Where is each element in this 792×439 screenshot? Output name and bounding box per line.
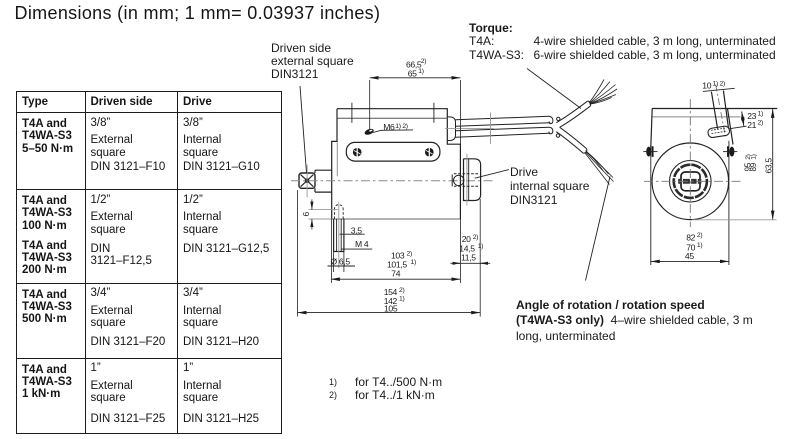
body outline bbox=[332, 109, 461, 219]
table of drive squares bbox=[16, 91, 282, 434]
square centerline vertical bbox=[306, 165, 308, 198]
svg-text:2): 2) bbox=[473, 234, 478, 241]
M6 label leader bbox=[373, 130, 413, 133]
svg-text:Ø 6,5: Ø 6,5 bbox=[331, 256, 351, 266]
front dim 95/63.5 line bbox=[772, 109, 774, 220]
M4 stud hidden thread bbox=[334, 205, 343, 219]
cable wires lower bbox=[585, 151, 614, 185]
cable sheath lower bbox=[556, 127, 587, 153]
dim M4 leader bbox=[341, 248, 372, 250]
dim 6.5 leader bbox=[328, 265, 356, 267]
drive label leader bbox=[475, 170, 509, 179]
driven side label leader bbox=[300, 86, 307, 173]
front ear right bbox=[723, 146, 737, 157]
front ring outer bbox=[670, 161, 712, 203]
stud centerline bbox=[338, 202, 340, 269]
svg-text:M 4: M 4 bbox=[355, 239, 369, 249]
slot screw right bbox=[425, 147, 434, 157]
cable pair lower bbox=[456, 127, 550, 137]
svg-text:1): 1) bbox=[758, 111, 763, 118]
dim 66.5 extensions bbox=[370, 80, 461, 144]
cap joint line bbox=[337, 117, 447, 119]
svg-text:1): 1) bbox=[411, 259, 416, 266]
annotation: footnotes bbox=[329, 376, 337, 401]
svg-text:2): 2) bbox=[758, 120, 763, 127]
svg-text:21: 21 bbox=[747, 120, 756, 130]
cap screw tick right bbox=[433, 103, 435, 123]
cable boss bbox=[447, 117, 455, 141]
front dim 23/21 bbox=[730, 112, 747, 129]
svg-text:11,5: 11,5 bbox=[461, 253, 476, 263]
body recess line bbox=[336, 142, 338, 176]
svg-text:74: 74 bbox=[391, 269, 400, 279]
main centerline bbox=[291, 180, 494, 182]
cable sheath upper bbox=[556, 101, 590, 127]
front right edge bbox=[728, 109, 734, 145]
svg-text:10: 10 bbox=[702, 81, 711, 91]
svg-text:65: 65 bbox=[408, 69, 417, 79]
annotation: driven side label bbox=[271, 42, 354, 82]
svg-text:82: 82 bbox=[686, 233, 695, 243]
M4 stud bbox=[334, 219, 344, 252]
svg-text:89: 89 bbox=[749, 162, 758, 171]
front dim 10 line bbox=[703, 88, 735, 91]
annotation: torque cable label bbox=[469, 22, 776, 63]
front ear left bbox=[643, 146, 657, 157]
front big circle bbox=[652, 143, 729, 220]
front left edge bbox=[651, 109, 653, 151]
annotation: drive internal square label bbox=[510, 165, 589, 208]
front tube gland bbox=[707, 126, 730, 139]
torque label leader bbox=[527, 69, 581, 109]
svg-text:1): 1) bbox=[697, 242, 702, 249]
dim 6.5 extensions bbox=[334, 252, 344, 273]
drive internal square hidden bbox=[454, 174, 479, 187]
svg-text:45: 45 bbox=[685, 251, 694, 261]
front vertical centerline bbox=[689, 99, 691, 227]
dim 105 extension left bbox=[297, 190, 299, 317]
svg-text:2): 2) bbox=[421, 58, 426, 65]
cable wires upper bbox=[589, 80, 617, 105]
front center hatch bbox=[678, 179, 702, 184]
front center square bbox=[681, 172, 700, 191]
dim right extension 460 bbox=[459, 219, 461, 283]
cable pair upper bbox=[456, 116, 550, 126]
svg-text:63,5: 63,5 bbox=[763, 158, 773, 174]
front dim 45 line bbox=[651, 260, 729, 262]
cable axis line bbox=[445, 128, 494, 130]
dim 74 extension left bbox=[330, 219, 332, 283]
front ring dashed bbox=[674, 165, 707, 198]
oval slot bbox=[346, 142, 440, 161]
cable tick bbox=[490, 113, 492, 145]
front cable tube bbox=[711, 91, 728, 129]
front dim bottom extension bbox=[692, 219, 777, 221]
dim 11.5 arrows bbox=[450, 262, 490, 264]
dim 74 line bbox=[331, 278, 461, 280]
dim 66.5/65 line bbox=[370, 77, 461, 79]
front top line bbox=[652, 108, 777, 110]
svg-text:2): 2) bbox=[407, 250, 412, 257]
annotation: angle of rotation label bbox=[516, 298, 753, 345]
svg-text:1) 2): 1) 2) bbox=[395, 123, 408, 130]
svg-text:1) 2): 1) 2) bbox=[713, 80, 726, 87]
driven shaft collar bbox=[315, 170, 332, 192]
svg-text:105: 105 bbox=[384, 304, 398, 314]
dim 6 lines bbox=[309, 210, 339, 219]
svg-text:2): 2) bbox=[697, 232, 702, 239]
dimension text labels bbox=[301, 58, 773, 313]
driven square symbol bbox=[299, 173, 315, 188]
front tube centerline bbox=[716, 85, 726, 137]
slot screw left bbox=[353, 147, 362, 157]
dim 11.5 line bbox=[455, 262, 486, 264]
dim 105 line bbox=[298, 312, 481, 314]
front horizontal centerline bbox=[644, 180, 742, 182]
svg-text:2): 2) bbox=[399, 287, 404, 294]
dim 3.5 leader bbox=[340, 233, 365, 235]
svg-text:6: 6 bbox=[301, 212, 311, 217]
M6 hole bbox=[364, 128, 375, 136]
svg-text:M6: M6 bbox=[383, 122, 395, 132]
dim 6 arrows bbox=[311, 199, 313, 229]
cap screw tick left bbox=[351, 103, 353, 123]
drive boss bbox=[464, 159, 481, 201]
drive boss centerline bbox=[466, 154, 468, 206]
angle label leader bbox=[586, 177, 611, 281]
svg-text:1): 1) bbox=[478, 243, 483, 250]
svg-text:1): 1) bbox=[750, 154, 757, 159]
svg-text:1): 1) bbox=[418, 68, 423, 75]
svg-text:1): 1) bbox=[399, 296, 404, 303]
dim 105 extension right bbox=[479, 199, 481, 317]
svg-text:3,5: 3,5 bbox=[351, 225, 362, 235]
title bbox=[15, 3, 381, 24]
cable twist loops bbox=[549, 116, 560, 137]
drive shaft circle bbox=[452, 175, 464, 187]
front plate bottom bbox=[652, 116, 741, 118]
